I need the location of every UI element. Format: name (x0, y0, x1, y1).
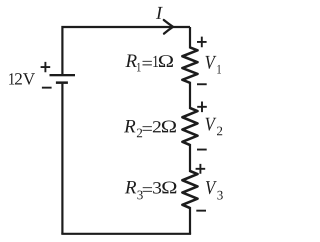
V3 + sign (196, 164, 206, 174)
wire: right side top segment from top-right corner to resistor R1 (189, 27, 191, 48)
wire: from battery - terminal down the left side to bottom-left corner (61, 84, 63, 234)
battery B1 long (+) plate (50, 74, 76, 76)
battery - sign (42, 87, 52, 89)
wire: right side segment between R1 and R2 (189, 82, 191, 109)
resistor R1 (1 ohm) zigzag (182, 47, 197, 82)
wire: from battery + terminal up the left side and across the top to top-right corner (62, 27, 190, 74)
current arrow head on top wire (164, 20, 173, 34)
battery + sign (41, 62, 51, 72)
V2 - sign (197, 149, 207, 151)
V1 + sign (197, 37, 207, 48)
wire: right side segment from R3 down to bottom-right corner (189, 207, 191, 234)
V2 + sign (197, 102, 207, 113)
wire: right side segment between R2 and R3 (189, 144, 191, 172)
label V1 (206, 56, 221, 74)
battery value label 12V (9, 73, 35, 85)
resistor R3 (3 ohm) zigzag (182, 171, 197, 208)
current label I (156, 7, 163, 19)
V1 - sign (197, 83, 207, 85)
V3 - sign (196, 210, 206, 212)
battery B1 short (-) plate (56, 81, 68, 84)
label R3=3ohm (125, 181, 177, 199)
label R1=1ohm (125, 55, 173, 72)
resistor R2 (2 ohm) zigzag (182, 108, 197, 145)
label R2=2ohm (124, 120, 176, 137)
wire: bottom side from bottom-left to bottom-right corner (61, 233, 191, 235)
label V3 (206, 181, 223, 199)
label V2 (206, 118, 223, 135)
